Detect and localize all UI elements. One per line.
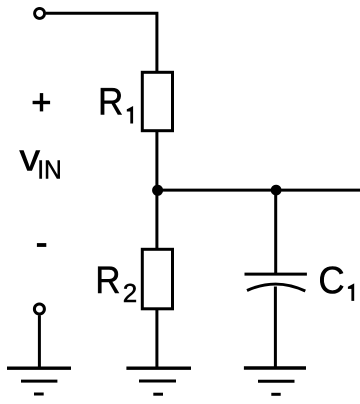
svg-text:R: R [95,260,120,302]
svg-text:C: C [318,260,344,302]
svg-text:IN: IN [37,155,62,185]
svg-text:2: 2 [123,278,137,308]
svg-text:R: R [98,81,123,123]
